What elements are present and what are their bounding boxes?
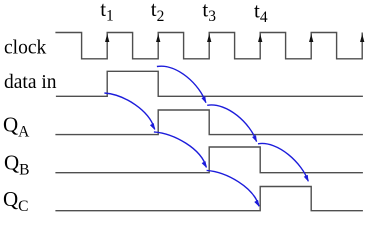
QA waveform [55,110,363,135]
svg-text:clock: clock [4,38,46,59]
arrow data-in fall to QA fall [157,66,206,103]
svg-text:t1: t1 [100,0,114,25]
data in waveform [56,71,363,96]
QB waveform [55,147,363,173]
clock rising-edge arrow t2 [156,34,160,42]
svg-text:QA: QA [3,113,30,141]
clock rising-edge arrow t5 [309,34,313,42]
arrow data-in to QA rise [104,93,154,130]
svg-text:QB: QB [4,150,30,178]
QC waveform [55,187,363,211]
svg-text:t2: t2 [151,0,165,25]
arrow QB fall to QC fall [258,143,308,181]
clock rising-edge arrow t4 [258,34,262,42]
svg-text:t3: t3 [202,0,216,25]
clock rising-edge arrow t6 [360,34,364,42]
arrow QB to QC rise [207,170,259,206]
clock waveform [55,33,362,59]
clock rising-edge arrow t3 [207,34,211,42]
svg-text:QC: QC [3,187,29,215]
svg-text:data in: data in [4,72,57,93]
arrow QA fall to QB fall [207,105,256,142]
arrow QA to QB rise [154,132,207,168]
svg-text:t4: t4 [254,0,268,26]
clock rising-edge arrow t1 [105,34,109,42]
